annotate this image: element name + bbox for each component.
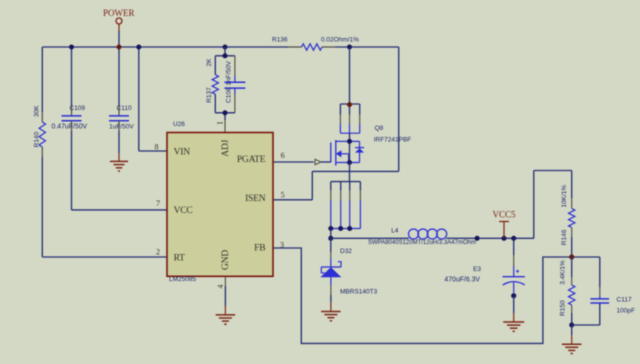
- svg-text:RT: RT: [174, 254, 186, 264]
- svg-text:LM25085: LM25085: [169, 276, 196, 283]
- svg-text:C117: C117: [617, 296, 632, 303]
- svg-text:VCC: VCC: [174, 206, 193, 216]
- svg-text:U26: U26: [173, 121, 185, 128]
- svg-text:ADJ: ADJ: [221, 139, 231, 156]
- svg-text:3: 3: [280, 241, 284, 250]
- svg-text:6: 6: [281, 151, 285, 160]
- svg-text:D32: D32: [340, 248, 352, 255]
- svg-text:R136: R136: [272, 36, 288, 43]
- svg-text:PGATE: PGATE: [237, 155, 266, 165]
- svg-text:1uF/50V: 1uF/50V: [109, 123, 134, 130]
- svg-text:0.47uF/50V: 0.47uF/50V: [52, 124, 88, 131]
- svg-text:C109: C109: [70, 105, 86, 112]
- svg-text:3.4K/1%: 3.4K/1%: [560, 260, 567, 285]
- svg-text:FB: FB: [254, 243, 265, 253]
- svg-text:10K/1%: 10K/1%: [561, 185, 568, 208]
- svg-text:R146: R146: [561, 229, 568, 245]
- svg-text:SWPA8040S120MT/12uH/3.3A47mOhm: SWPA8040S120MT/12uH/3.3A47mOhm: [368, 240, 476, 246]
- svg-text:MBRS140T3: MBRS140T3: [340, 288, 378, 295]
- svg-text:Q8: Q8: [375, 125, 384, 132]
- svg-text:100pF: 100pF: [617, 308, 635, 315]
- svg-text:R137: R137: [206, 87, 213, 103]
- svg-text:GND: GND: [221, 250, 231, 270]
- svg-text:R150: R150: [560, 300, 567, 316]
- svg-text:5: 5: [281, 190, 285, 199]
- svg-text:R140: R140: [33, 131, 40, 147]
- svg-text:30K: 30K: [33, 105, 40, 117]
- svg-text:VCC5: VCC5: [493, 210, 517, 220]
- svg-text:C108: C108: [225, 87, 232, 103]
- svg-text:L4: L4: [391, 227, 399, 234]
- svg-text:VIN: VIN: [174, 147, 191, 157]
- svg-text:E3: E3: [473, 266, 481, 273]
- svg-text:IRF7241PBF: IRF7241PBF: [374, 137, 412, 144]
- svg-text:470uF/6.3V: 470uF/6.3V: [444, 277, 480, 284]
- svg-text:2K: 2K: [206, 58, 213, 67]
- svg-text:4: 4: [216, 285, 225, 289]
- svg-text:ISEN: ISEN: [245, 194, 266, 204]
- svg-text:0.02Ohm/1%: 0.02Ohm/1%: [321, 36, 359, 43]
- svg-text:8: 8: [155, 142, 159, 151]
- svg-text:7: 7: [156, 199, 160, 208]
- svg-text:POWER: POWER: [103, 8, 135, 18]
- svg-text:2: 2: [156, 247, 160, 256]
- svg-text:C110: C110: [117, 105, 132, 112]
- svg-text:1: 1: [215, 121, 224, 125]
- svg-text:1nF/50V: 1nF/50V: [225, 60, 232, 85]
